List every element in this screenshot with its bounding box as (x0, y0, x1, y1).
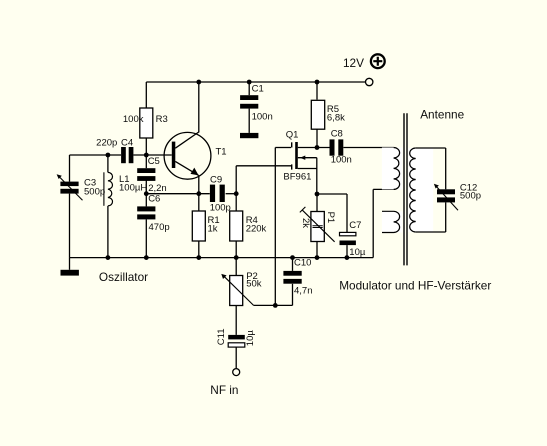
wire primary bottom lead return (373, 188, 393, 190)
node C6 on ground rail (144, 255, 149, 260)
12V supply symbol (371, 54, 385, 68)
node L1 top (106, 153, 111, 158)
svg-text:100p: 100p (210, 202, 231, 213)
wire R1 bottom (198, 241, 200, 258)
wire C4 to T1 base (133, 154, 171, 156)
svg-text:C9: C9 (210, 174, 222, 185)
wire Q1 gate1 lead (236, 165, 291, 167)
wire modulation row (254, 304, 293, 306)
wire secondary right leg upper (445, 148, 447, 189)
svg-text:100µH: 100µH (119, 182, 147, 193)
wire R3 top stub (145, 82, 147, 108)
wire secondary right leg lower (445, 202, 447, 232)
svg-text:100n: 100n (331, 155, 352, 166)
wire ground stub (69, 258, 71, 270)
wire R1 top (198, 194, 200, 211)
node T1 collector on rail (196, 80, 201, 85)
wire P1 top (316, 194, 318, 212)
transistor T1 (164, 132, 226, 180)
MOSFET Q1 (283, 130, 311, 183)
wire C3 bottom (69, 194, 71, 258)
capacitor C9 (210, 174, 231, 213)
wire C6 bottom (145, 219, 147, 257)
wire P2 top (235, 258, 237, 276)
connector 12V terminal (366, 78, 373, 85)
wire ground rail (70, 257, 374, 259)
junction dots (106, 80, 350, 308)
svg-text:C8: C8 (331, 128, 343, 139)
potentiometer P2 (221, 271, 261, 306)
node R1 on ground rail (196, 255, 201, 260)
svg-text:10µ: 10µ (349, 247, 366, 258)
capacitor C8 (330, 128, 352, 165)
wire P1 bottom (316, 242, 318, 258)
electrolytic capacitor C11 (216, 328, 256, 347)
wire R3 bottom to node (145, 138, 147, 168)
wire C11 to NF connector (235, 347, 237, 368)
wire L1 top (107, 155, 109, 172)
node T1 base / C5 (144, 153, 149, 158)
svg-text:12V: 12V (343, 56, 364, 70)
wire Q1 source lead (298, 168, 317, 170)
resistor R5 (311, 100, 345, 129)
svg-text:C10: C10 (294, 257, 311, 268)
node P1 on ground rail (315, 255, 320, 260)
svg-text:C11: C11 (216, 328, 227, 345)
svg-text:Antenne: Antenne (420, 108, 464, 122)
wire C8 to transformer (343, 147, 393, 149)
wire T1 collector vertical (198, 82, 200, 132)
wire C5 to C6 (145, 180, 147, 206)
ground (oscillator) (61, 270, 79, 276)
wire T1 emitter vertical (198, 175, 200, 194)
capacitor C6 (137, 194, 169, 234)
wire C7 bottom (346, 245, 348, 258)
node R5 on rail (315, 80, 320, 85)
wire Q1 gate2 lead (275, 147, 291, 149)
wire C1 top stub (248, 82, 250, 95)
wire Q1 drain lead (298, 147, 330, 149)
svg-text:100k: 100k (123, 114, 144, 125)
wire R5 top stub (316, 82, 318, 100)
svg-text:1k: 1k (208, 223, 218, 234)
node Q1 source / P1 / C7 (315, 192, 320, 197)
node C10 on ground rail (290, 255, 295, 260)
node C9 / R4 / gate1 (234, 191, 239, 196)
svg-text:T1: T1 (216, 146, 227, 157)
wire Q1 bulk lead (298, 157, 317, 159)
svg-text:R3: R3 (156, 114, 168, 125)
wire gate1 riser (235, 166, 237, 211)
svg-text:470p: 470p (149, 222, 170, 233)
wire C10 bottom corner (292, 284, 294, 306)
svg-text:Modulator und HF-Verstärker: Modulator und HF-Verstärker (339, 279, 491, 293)
node C5-C6 / emitter row left (144, 191, 149, 196)
wire L1 bottom (107, 206, 109, 258)
wire C9 right to node (226, 193, 237, 195)
svg-text:C1: C1 (252, 83, 264, 94)
variable capacitor C12 (434, 183, 481, 211)
svg-text:10µ: 10µ (245, 330, 256, 347)
ground (C1) (240, 133, 258, 138)
wire C10 top (292, 258, 294, 271)
svg-text:2k: 2k (300, 218, 311, 228)
transformer secondary winding (408, 148, 433, 232)
svg-text:Q1: Q1 (286, 130, 299, 141)
wire R5 bottom (316, 129, 318, 147)
node C1 on rail (247, 80, 252, 85)
wire 12V top rail (146, 81, 365, 83)
svg-text:220p: 220p (96, 137, 117, 148)
transformer primary lower winding (382, 211, 402, 232)
inductor L1 (104, 172, 147, 206)
svg-text:2,2n: 2,2n (148, 183, 167, 194)
resistor R3 (123, 108, 168, 138)
svg-text:C4: C4 (121, 137, 133, 148)
svg-text:Oszillator: Oszillator (99, 270, 148, 284)
wire R4 bottom (235, 241, 237, 258)
potentiometer P1 (300, 207, 336, 242)
svg-text:C5: C5 (148, 156, 160, 167)
node R5 / Q1 drain / C8 (315, 145, 320, 150)
svg-text:500p: 500p (84, 186, 105, 197)
wire Q1 gate2 drop to modulation node (274, 148, 276, 306)
node T1 emitter / R1 (196, 191, 201, 196)
wire P2 bottom to C11 (235, 305, 237, 335)
svg-text:6,8k: 6,8k (327, 113, 345, 124)
node R4 / P2 on ground rail (234, 255, 239, 260)
capacitor C1 (240, 83, 273, 132)
svg-text:C7: C7 (349, 220, 361, 231)
svg-text:4,7n: 4,7n (294, 286, 313, 297)
wire C7 top (346, 194, 348, 232)
capacitor C10 (283, 257, 312, 296)
resistor R1 (192, 211, 219, 241)
svg-text:50k: 50k (246, 278, 262, 289)
wire source node to C7 (317, 193, 347, 195)
connector NF in terminal (233, 369, 240, 376)
transformer core (404, 113, 407, 265)
node C7 on ground rail (345, 255, 350, 260)
wire secondary bottom lead (416, 231, 446, 233)
resistor R4 (230, 211, 267, 241)
capacitor C4 (96, 137, 133, 163)
svg-text:NF in: NF in (210, 383, 238, 397)
svg-text:100n: 100n (252, 112, 273, 123)
node L1 on ground rail (106, 255, 111, 260)
wire emitter row (146, 193, 210, 195)
capacitor C5 (137, 156, 167, 194)
svg-text:500p: 500p (460, 190, 481, 201)
svg-text:BF961: BF961 (283, 172, 311, 183)
svg-text:C6: C6 (148, 194, 160, 205)
wire oscillator top (70, 154, 122, 156)
wire source drop (316, 158, 318, 194)
wire primary return to ground rail (372, 189, 374, 257)
svg-text:P1: P1 (325, 212, 336, 224)
variable capacitor C3 (57, 174, 106, 200)
node P2 wiper / gate2 / C10 (273, 303, 278, 308)
wire secondary top lead (416, 147, 446, 149)
transformer primary upper winding (382, 148, 402, 190)
wire C3 top (69, 155, 71, 182)
svg-text:220k: 220k (246, 223, 267, 234)
electrolytic capacitor C7 (340, 220, 366, 258)
